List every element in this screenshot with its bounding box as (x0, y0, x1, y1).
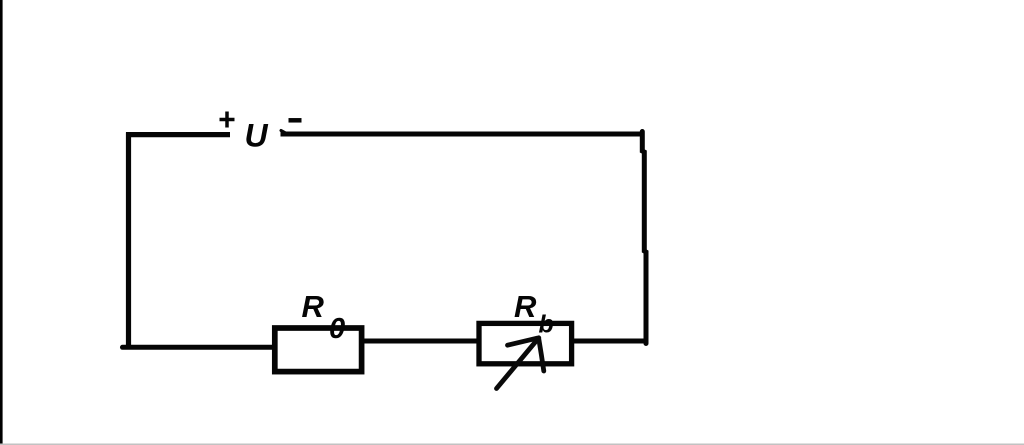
wire: bottom-right horizontal segment (572, 339, 648, 344)
wire: segment between R0 and Rb (362, 339, 479, 344)
svg-text:0: 0 (329, 313, 345, 345)
wire: top-left horizontal segment (126, 132, 230, 137)
svg-text:R: R (514, 289, 537, 324)
rheostat Rb wiper arrow (497, 338, 544, 389)
wire: right vertical (642, 132, 646, 344)
svg-text:U: U (245, 118, 269, 154)
rheostat Rb body (479, 323, 572, 363)
resistor R0 body (275, 328, 362, 372)
wire: left vertical (126, 132, 131, 348)
label: + polarity of source (220, 112, 235, 128)
svg-text:b: b (539, 310, 554, 338)
wire: top-right horizontal segment (281, 132, 644, 137)
wire: bottom-left horizontal segment (123, 345, 276, 350)
label: - polarity of source (289, 118, 302, 123)
svg-text:R: R (302, 289, 325, 324)
